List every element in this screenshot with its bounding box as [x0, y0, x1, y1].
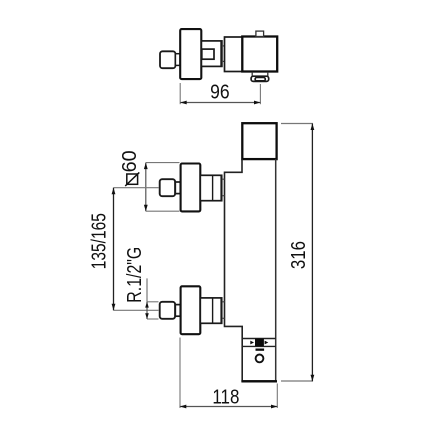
top view: connection tick lower [222, 60, 225, 62]
upper handle: stem bold right edge [220, 175, 222, 200]
dim R: bottom arrowhead [145, 313, 149, 319]
top view: square escutcheon plate [180, 29, 201, 79]
svg-text:316: 316 [288, 241, 310, 269]
dim 135/165: upper centerline [114, 187, 160, 189]
dim 118: right extension line [276, 384, 278, 409]
upper handle: knob connector [175, 182, 180, 194]
outlet box: band bottom line [242, 345, 276, 347]
dim 60: bracket top line [146, 162, 180, 164]
dim 60: square symbol [127, 174, 138, 184]
dim 135/165: vertical dimension line [113, 188, 115, 311]
outlet box: outline [242, 339, 276, 382]
dim 60: bracket bottom line [146, 210, 180, 212]
top view: aerator inner slot [255, 78, 265, 81]
upper handle: stem body [200, 175, 221, 200]
dimension 96: left arrowhead [180, 101, 187, 105]
dim 135/165: bottom arrowhead [112, 304, 116, 311]
body: top cap square [242, 123, 276, 159]
outlet box: right small arrow [265, 341, 269, 345]
lower handle: knob [160, 302, 175, 319]
top view: knob connector [175, 54, 180, 66]
lower handle: connection tick bottom [222, 317, 225, 319]
upper handle: escutcheon plate [181, 164, 201, 212]
dim 118: dimension line [180, 406, 278, 408]
top view: inner square detail [202, 49, 214, 59]
top view: small top tab [256, 31, 264, 36]
svg-text:96: 96 [210, 82, 230, 104]
dim 316: top extension line [281, 123, 313, 125]
outlet box: screw circle [256, 355, 264, 363]
svg-text:118: 118 [212, 387, 239, 409]
lower handle: stem bold right edge [220, 298, 222, 323]
outlet box: black bar under band [256, 349, 265, 351]
top view: body square [242, 37, 277, 72]
dim R: vertical dimension line [146, 302, 148, 319]
dimension 96: right extension line [259, 84, 261, 104]
outlet box: diverter black block [255, 339, 264, 347]
outlet box: top edge [242, 338, 276, 340]
lower handle: escutcheon plate [181, 286, 201, 334]
lower handle: connection tick top [222, 301, 225, 303]
top view: stem end cap bold edge [220, 41, 222, 66]
lower handle: stem body [200, 298, 221, 323]
top view: connection tick upper [222, 45, 225, 47]
dim R: bracket bottom line [147, 318, 159, 320]
upper handle: knob [160, 179, 175, 196]
dim R: top arrowhead [145, 302, 149, 308]
lower handle: knob connector [175, 305, 180, 317]
dim 135/165: lower centerline [114, 309, 159, 311]
dimension 96: right arrowhead [254, 101, 261, 105]
dim 135/165: top arrowhead [112, 188, 116, 195]
top view: aerator cap [251, 76, 269, 81]
dim 316: bottom extension line [281, 380, 313, 382]
top view: outlet stub left wall [251, 72, 253, 76]
dim 60: square symbol diagonal [125, 172, 139, 186]
body: right edge [275, 159, 277, 381]
dim 316: top arrowhead [311, 124, 315, 131]
top view: mounting mid-block [225, 37, 243, 72]
svg-text:60: 60 [119, 150, 141, 172]
dim 316: vertical dimension line [311, 124, 313, 382]
outlet box: left small arrow [250, 341, 254, 345]
dim 118: left arrowhead [180, 405, 187, 409]
svg-text:R.1/2"G: R.1/2"G [124, 247, 146, 303]
upper handle: connection tick bottom [222, 195, 225, 197]
dimension 96: dimension line [180, 102, 260, 104]
upper handle: stem divider line [212, 175, 214, 200]
dimension 96: left extension line [179, 83, 181, 104]
top view: cartridge stem [201, 41, 222, 67]
upper handle: connection tick top [222, 178, 225, 180]
top view: outlet stub right wall [267, 72, 269, 76]
dim 316: bottom arrowhead [311, 375, 315, 382]
dim R: bracket top line [147, 301, 159, 303]
top view: handle knob [160, 51, 175, 68]
dim 60: top arrowhead [144, 163, 148, 170]
dim 60: bottom arrowhead [144, 205, 148, 212]
dim 118: right arrowhead [271, 405, 278, 409]
lower handle: stem divider line [212, 298, 214, 323]
dim R: leader line [146, 278, 148, 301]
dim 118: left extension line [179, 338, 181, 409]
body: left profile with steps [225, 159, 243, 338]
svg-text:135/165: 135/165 [89, 213, 111, 269]
dim 60: vertical dimension line [145, 163, 147, 212]
outlet box: bold bottom edge [241, 380, 277, 382]
